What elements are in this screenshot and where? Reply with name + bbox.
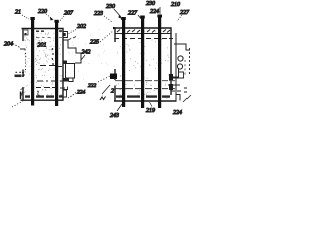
small rect lower shaft [179,72,184,78]
left edge tick marks [22,73,24,77]
left flange dot [25,33,27,35]
shaft step ledge [63,40,82,53]
dashed line below top left unit [36,36,62,38]
dash-dot line y81 left unit [37,80,64,82]
step mark below rect [69,79,74,82]
right shaft lower step [168,68,184,85]
svg-text:220: 220 [38,9,47,15]
svg-text:207: 207 [64,11,74,17]
right housing box [114,28,177,101]
extra stipple left interior [25,32,55,92]
axle end [75,53,81,63]
leader from 204 [13,44,20,48]
dash-dot line y87 left unit [36,87,65,90]
scan speckle right [116,31,170,98]
shaft upper rect fill [64,33,66,36]
svg-text:204: 204 [4,41,13,48]
leader dots from step [68,93,76,98]
leader lower left right unit [102,85,110,94]
leader 219 [150,102,153,107]
svg-text:219: 219 [146,108,155,114]
dots leader lower shaft [71,91,78,97]
svg-text:2: 2 [111,89,114,95]
left bolt bar B [55,20,58,106]
dotted leader mid left right unit [100,31,113,42]
bearing ball lower [177,64,182,69]
bottom right step left unit [63,90,67,97]
svg-text:224: 224 [173,109,182,116]
right bolt bar 1 [122,18,125,107]
right bolt bar 3 [158,15,161,108]
svg-text:222: 222 [88,83,97,89]
svg-text:210: 210 [171,2,180,8]
right hatch top dashes [117,30,170,33]
crown mark left [15,75,22,78]
svg-text:225: 225 [90,40,99,46]
left flange block [24,30,28,35]
svg-text:243: 243 [110,112,119,119]
right edge blob upper [169,74,173,80]
bottom left dotted leader [12,101,23,107]
lower bearing rect [66,64,75,79]
right bolt bar 2 [141,16,144,108]
leader from 207 [58,16,64,23]
right housing second top line [115,33,171,35]
left housing box [21,28,64,100]
right housing second right line [175,33,177,101]
left bar cap A [30,17,34,20]
leader 227 mid [138,15,142,20]
leader 204 top [159,7,161,14]
leader from 202 [68,30,76,35]
arrowhead 230 [119,15,123,19]
svg-text:242: 242 [82,49,91,56]
terminal blob on left edge [110,74,117,80]
right dash-dot y81 [115,80,175,82]
bottom left mark right unit [100,97,106,101]
leader 223 [104,16,112,22]
right shaft dashed vertical [189,48,191,75]
label 211 leader [68,37,76,41]
leader 243 [117,104,122,111]
leader to 242 [81,55,85,60]
left edge arrow right unit [113,27,117,29]
right bottom leader slashes [183,95,191,102]
svg-text:224: 224 [150,8,159,15]
scan speckle misc [65,30,114,96]
svg-text:21: 21 [15,10,21,16]
dotted leader to terminal [98,76,110,82]
leader 230 arrow [114,9,121,17]
hatch dashes top row left unit [36,30,62,32]
centerline dashes left unit [40,66,62,67]
hook mark left [21,89,24,96]
bearing ball upper [178,56,183,61]
squiggle mark inside bottom [37,91,40,95]
right housing dashed top line [115,38,173,40]
svg-text:224: 224 [77,89,86,96]
crown dots [16,72,25,75]
right edge blob lower [169,84,173,90]
bracket mark [20,49,25,51]
svg-text:202: 202 [77,24,86,30]
lower rect corner blob [64,78,70,82]
right shaft top step [174,44,190,50]
shaft upper narrow rect [63,32,68,38]
right lower dashes [171,88,187,92]
svg-text:230: 230 [146,1,155,7]
right hatch bottom dashes [116,95,170,97]
bar cap 1 [121,17,126,20]
right dash-dot y89 [115,88,175,90]
inner dashed vertical shaft [184,60,186,76]
leader arrow from 220 [46,14,51,18]
leader from 21 [22,15,29,19]
arrowhead 220 [50,17,54,21]
interior stipple ticks [52,48,55,65]
hatch dashes bottom row left unit [25,95,63,98]
right bottom step [176,95,180,101]
bar cap 3 [157,15,162,18]
bar cap 2 [140,16,145,19]
svg-text:230: 230 [106,4,115,10]
hidden dotted vertical [25,53,27,71]
left bar cap B [54,20,58,23]
lower bearing blob [64,61,68,65]
left bolt bar A [31,17,34,106]
svg-text:227: 227 [128,11,138,17]
scan speckle left [24,32,62,98]
svg-text:201: 201 [38,43,47,49]
svg-text:223: 223 [94,11,103,17]
bracket mark lower [64,87,68,90]
leader 227 right [177,15,182,21]
